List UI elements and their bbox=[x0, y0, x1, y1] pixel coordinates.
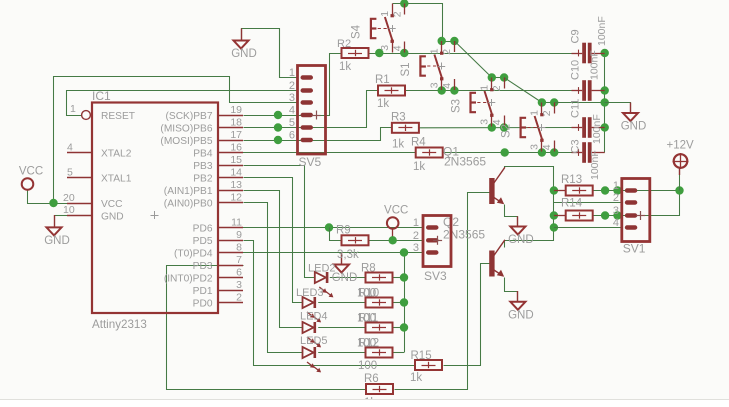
svg-text:S1: S1 bbox=[400, 62, 412, 76]
wire GND pin10 to ground symbol bbox=[54, 215, 67, 217]
svg-text:4: 4 bbox=[391, 45, 403, 51]
wire PD3 net: through IC down to R6 bbox=[167, 266, 367, 390]
wire R14 right through SV1 pin3 to +12V column bbox=[594, 191, 680, 216]
svg-text:RESET: RESET bbox=[101, 111, 135, 122]
svg-text:PB4: PB4 bbox=[193, 149, 213, 160]
switch S2 bbox=[500, 103, 554, 152]
svg-text:2: 2 bbox=[541, 110, 553, 116]
svg-text:3: 3 bbox=[413, 242, 419, 254]
wire LED3 cathode to R10 bbox=[318, 302, 365, 304]
svg-text:1k: 1k bbox=[392, 139, 404, 151]
svg-text:R13: R13 bbox=[561, 174, 582, 186]
wire SV1 pin4 to bus bbox=[554, 227, 622, 229]
svg-text:R3: R3 bbox=[391, 112, 406, 124]
wire S1 top pins link bbox=[442, 41, 455, 43]
svg-text:R2: R2 bbox=[337, 38, 351, 50]
+12V supply symbol bbox=[667, 140, 695, 176]
junction cap-GNDtap bbox=[601, 98, 609, 106]
svg-text:4: 4 bbox=[441, 83, 453, 89]
capacitor C10 100nF bbox=[569, 50, 604, 101]
svg-text:(AIN1)PB1: (AIN1)PB1 bbox=[164, 186, 213, 197]
junction S4 pin4 bottom bbox=[400, 49, 408, 57]
ground GND at capacitor bus bbox=[621, 103, 647, 133]
junction S3 pin3 bottom bbox=[488, 123, 496, 131]
LED5 bbox=[300, 335, 328, 372]
svg-text:PD5: PD5 bbox=[193, 236, 213, 247]
resistor R4 1k bbox=[416, 148, 443, 158]
LED4 bbox=[300, 311, 328, 348]
wire SV1 pin2 to bus bbox=[554, 202, 622, 204]
svg-text:1: 1 bbox=[529, 110, 541, 116]
wire VCC net left vertical/horizontal to IC pin20 and SV5 pin3 bbox=[28, 190, 68, 204]
svg-text:3: 3 bbox=[613, 205, 619, 217]
resistor R8 100 bbox=[366, 273, 393, 283]
svg-text:3: 3 bbox=[236, 279, 242, 291]
svg-text:LED4: LED4 bbox=[300, 311, 328, 323]
svg-text:1: 1 bbox=[413, 217, 419, 229]
junction VCC-SV3 bbox=[389, 236, 397, 244]
wire GND net S2 pin2 to cap bus bbox=[554, 102, 605, 104]
ground GND top left bbox=[231, 29, 257, 61]
svg-text:PD0: PD0 bbox=[193, 299, 213, 310]
svg-text:6: 6 bbox=[236, 267, 242, 279]
wire R9 branch down bbox=[330, 228, 342, 241]
svg-text:C9: C9 bbox=[569, 29, 581, 43]
junction cap-C9 bbox=[601, 49, 609, 57]
svg-text:20: 20 bbox=[63, 192, 75, 204]
switch S3 bbox=[450, 78, 504, 127]
svg-text:4: 4 bbox=[541, 144, 553, 150]
svg-text:C3: C3 bbox=[569, 139, 581, 153]
wire Q1 emitter to GND bbox=[505, 205, 518, 227]
wire LED2 cathode to R8 bbox=[330, 277, 366, 279]
svg-text:3: 3 bbox=[289, 92, 295, 104]
transistor Q2 2N3565 bbox=[489, 240, 505, 277]
svg-text:11: 11 bbox=[231, 217, 242, 229]
junction bus-R10 bbox=[400, 298, 408, 306]
junction bus-R11 bbox=[400, 323, 408, 331]
svg-text:4: 4 bbox=[613, 217, 619, 229]
junction cap-C11 bbox=[601, 123, 609, 131]
wire SCK net: pin19 through SV5 pin4 up to R2 bbox=[244, 54, 342, 116]
wire SCK net: R2 right to S4/S1 and C9 bbox=[369, 53, 572, 55]
wire PD5 net: pin9 down to R15 bbox=[244, 241, 416, 366]
svg-text:1: 1 bbox=[429, 48, 441, 54]
svg-text:1k: 1k bbox=[339, 61, 351, 73]
svg-text:2: 2 bbox=[441, 49, 453, 55]
svg-text:GND: GND bbox=[332, 272, 358, 284]
wire VCC symbol stub bbox=[392, 229, 394, 241]
junction S3 pin2 top bbox=[500, 73, 508, 81]
junction R14-b bbox=[613, 211, 621, 219]
wire R13 right through SV1 pin1 to +12V bbox=[593, 190, 679, 192]
junction S2 pin3 bottom bbox=[538, 148, 546, 156]
junction S1 pin3 bottom bbox=[438, 86, 446, 94]
svg-text:4: 4 bbox=[67, 142, 73, 154]
junction S1 pin1 top bbox=[438, 37, 446, 45]
wire MOSI net: pin17 through SV5 pin6 to R3 bbox=[244, 128, 392, 141]
svg-text:R8: R8 bbox=[361, 263, 376, 275]
svg-text:(SCK)PB7: (SCK)PB7 bbox=[166, 111, 213, 122]
svg-text:16: 16 bbox=[230, 142, 242, 154]
wire R9 right to VCC junction and SV3 pin2 bbox=[368, 240, 423, 242]
wire top GND to SV5 pin1 bbox=[242, 29, 299, 78]
junction bus-R13 bbox=[550, 186, 558, 194]
svg-text:Attiny2313: Attiny2313 bbox=[92, 318, 147, 331]
svg-text:1: 1 bbox=[289, 67, 295, 79]
resistor R6 1k bbox=[366, 384, 393, 394]
svg-text:1k: 1k bbox=[377, 98, 389, 110]
svg-text:7: 7 bbox=[236, 254, 242, 266]
svg-text:GND: GND bbox=[508, 309, 534, 321]
svg-text:R15: R15 bbox=[411, 350, 432, 362]
ground GND at Q1 emitter bbox=[508, 216, 534, 246]
capacitor C11 100nF bbox=[569, 99, 604, 144]
svg-text:100: 100 bbox=[358, 360, 377, 372]
capacitor C9 100nF bbox=[569, 16, 608, 63]
svg-text:9: 9 bbox=[236, 229, 242, 241]
wire R15 right to Q2 base bbox=[444, 264, 490, 366]
wire +12V symbol stub bbox=[679, 169, 681, 191]
svg-text:100: 100 bbox=[357, 338, 376, 350]
junction S4 pin2 top bbox=[400, 0, 408, 8]
resistor R1 1k bbox=[378, 86, 405, 96]
junction GND bus top bbox=[400, 248, 408, 256]
wire PB4 net: R4 right to S2 pins, Q1 collector node and C3 bbox=[444, 152, 572, 154]
svg-text:8: 8 bbox=[236, 242, 242, 254]
LED3 bbox=[296, 287, 324, 322]
svg-text:S2: S2 bbox=[500, 124, 512, 138]
wire Q2 emitter to GND bbox=[505, 278, 518, 302]
svg-text:SV3: SV3 bbox=[424, 269, 447, 283]
wire R14 left lead bbox=[554, 215, 566, 217]
svg-text:100nF: 100nF bbox=[591, 114, 603, 144]
junction PD6-R9 branch bbox=[325, 223, 333, 231]
svg-text:PD3: PD3 bbox=[193, 261, 213, 272]
svg-text:LED3: LED3 bbox=[296, 287, 324, 299]
junction cap-C10 bbox=[601, 86, 609, 94]
svg-text:5: 5 bbox=[67, 167, 73, 179]
ground GND middle (below PD4 net) bbox=[332, 253, 358, 285]
svg-text:(T0)PD4: (T0)PD4 bbox=[174, 249, 213, 260]
svg-text:13: 13 bbox=[230, 179, 242, 191]
svg-text:6: 6 bbox=[289, 130, 295, 142]
junction MOSI at SV5 pin6 bbox=[274, 136, 282, 144]
svg-text:VCC: VCC bbox=[384, 205, 408, 217]
VCC supply symbol left bbox=[19, 166, 43, 190]
wire R13 left lead bbox=[554, 190, 566, 192]
wire S3 top pins link bbox=[492, 77, 504, 79]
svg-text:1k: 1k bbox=[413, 161, 425, 173]
svg-text:LED5: LED5 bbox=[300, 335, 328, 347]
wire PB4 net: pin16 to R4 bbox=[243, 152, 416, 154]
svg-text:5: 5 bbox=[289, 117, 295, 129]
svg-text:10: 10 bbox=[63, 204, 75, 216]
junction S3 pin1 top bbox=[488, 73, 496, 81]
svg-text:VCC: VCC bbox=[101, 199, 123, 210]
svg-text:1: 1 bbox=[379, 11, 391, 17]
junction R14-a bbox=[601, 211, 609, 219]
wire S4 top connection to S1 pin1 bbox=[393, 4, 443, 42]
connector SV3 bbox=[413, 216, 451, 284]
junction S1 pin4 bottom bbox=[450, 86, 458, 94]
wire net R3 right to S3 pins and C11 bbox=[420, 127, 572, 129]
resistor R15 1k bbox=[415, 360, 442, 370]
svg-text:100: 100 bbox=[357, 288, 376, 300]
junction S2 pin2 top bbox=[550, 98, 558, 106]
junction S1 pin2 top bbox=[450, 37, 458, 45]
svg-text:(INT0)PD2: (INT0)PD2 bbox=[164, 274, 213, 285]
svg-text:XTAL2: XTAL2 bbox=[101, 149, 132, 160]
wire Q1 collector to R13/R14 bus bbox=[505, 167, 554, 248]
svg-text:15: 15 bbox=[230, 154, 242, 166]
svg-text:R1: R1 bbox=[375, 74, 390, 86]
connector SV5 bbox=[289, 66, 326, 170]
junction S2 pin4 bottom bbox=[550, 148, 558, 156]
wire PD4/GND net: pin8 to SV3 pin3 bbox=[243, 252, 423, 254]
op-amp IC1 ATtiny2313 microcontroller bbox=[63, 89, 243, 331]
wire PB1 to LED4 anode bbox=[244, 191, 303, 328]
junction bus-R8 bbox=[400, 273, 408, 281]
svg-text:(MISO)PB6: (MISO)PB6 bbox=[160, 124, 212, 135]
wire RESET net to SV5 pin2 bbox=[67, 91, 299, 116]
resistor R11 100 bbox=[366, 323, 393, 333]
VCC supply symbol middle bbox=[384, 205, 408, 229]
svg-text:19: 19 bbox=[230, 104, 242, 116]
svg-text:PB2: PB2 bbox=[193, 174, 213, 185]
svg-text:2N3565: 2N3565 bbox=[444, 155, 486, 169]
svg-text:PB3: PB3 bbox=[193, 161, 213, 172]
wire diagonal S3 pin2 to S2 pin1 bbox=[504, 78, 542, 103]
junction MISO at SV5 pin5 bbox=[274, 123, 282, 131]
wire S2 top pins link bbox=[542, 102, 554, 104]
svg-text:1: 1 bbox=[613, 180, 619, 192]
svg-text:IC1: IC1 bbox=[92, 89, 111, 103]
svg-text:100nF: 100nF bbox=[589, 150, 601, 180]
svg-text:GND: GND bbox=[231, 48, 257, 60]
svg-text:R9: R9 bbox=[336, 225, 351, 237]
decor bbox=[0, 399, 729, 407]
junction R13-b bbox=[613, 186, 621, 194]
svg-text:100: 100 bbox=[357, 313, 376, 325]
wire cap bus vertical bbox=[604, 53, 606, 153]
svg-text:1k: 1k bbox=[410, 372, 422, 384]
wire R8 right to GND bus bbox=[392, 277, 404, 279]
junction S2 pin1 top bbox=[538, 98, 546, 106]
wire R11 right to GND bus bbox=[392, 327, 404, 329]
svg-text:18: 18 bbox=[230, 117, 242, 129]
svg-text:14: 14 bbox=[230, 167, 242, 179]
wire PD6 net: pin11 to SV3 pin1 bbox=[243, 227, 423, 229]
svg-text:GND: GND bbox=[621, 121, 647, 133]
junction +12V node bbox=[675, 186, 683, 194]
wire cap bus GND tap bbox=[605, 103, 631, 114]
svg-text:VCC: VCC bbox=[19, 166, 43, 178]
switch S4 bbox=[351, 4, 405, 53]
wire GND symbol stub mid bbox=[341, 253, 343, 265]
resistor R10 100 bbox=[366, 298, 393, 308]
svg-text:1: 1 bbox=[70, 103, 76, 115]
svg-text:1: 1 bbox=[479, 85, 491, 91]
svg-text:12: 12 bbox=[230, 192, 242, 204]
resistor R14 bbox=[566, 211, 593, 221]
svg-text:LED2: LED2 bbox=[308, 263, 336, 275]
junction bus-SV1pin4 bbox=[550, 223, 558, 231]
svg-text:2: 2 bbox=[491, 85, 503, 91]
junction S3 pin4 bottom bbox=[500, 123, 508, 131]
wire LED4 cathode to R11 bbox=[318, 327, 365, 329]
junction S4 bottom-left bbox=[375, 49, 383, 57]
svg-text:R6: R6 bbox=[364, 373, 379, 385]
svg-text:S3: S3 bbox=[450, 99, 462, 113]
svg-text:2N3565: 2N3565 bbox=[443, 228, 485, 242]
svg-text:SV1: SV1 bbox=[623, 242, 646, 256]
svg-text:3: 3 bbox=[429, 82, 441, 88]
svg-text:3: 3 bbox=[479, 119, 491, 125]
svg-text:2: 2 bbox=[413, 230, 419, 242]
connector SV1 bbox=[613, 179, 650, 256]
wire LED5 cathode to R12 bbox=[318, 352, 365, 354]
svg-text:+12V: +12V bbox=[667, 140, 695, 152]
wire MISO net: R1 right to S1/S3 and C10 bbox=[406, 90, 572, 92]
svg-text:2: 2 bbox=[289, 80, 295, 92]
svg-text:S4: S4 bbox=[351, 24, 363, 39]
transistor Q1 2N3565 bbox=[489, 167, 505, 204]
ground GND at Q2 emitter bbox=[508, 291, 534, 321]
svg-text:2: 2 bbox=[391, 11, 403, 17]
resistor R3 1k bbox=[392, 123, 419, 133]
svg-text:3: 3 bbox=[529, 144, 541, 150]
svg-text:4: 4 bbox=[289, 105, 295, 117]
svg-text:C11: C11 bbox=[569, 99, 581, 118]
resistor R12 100 bbox=[366, 348, 393, 358]
svg-text:PD6: PD6 bbox=[193, 224, 213, 235]
switch S1 bbox=[400, 41, 454, 90]
svg-text:2: 2 bbox=[613, 192, 619, 204]
svg-text:(AIN0)PB0: (AIN0)PB0 bbox=[164, 199, 213, 210]
wire R6 right to Q1 base bbox=[395, 193, 490, 390]
svg-text:(MOSI)PB5: (MOSI)PB5 bbox=[160, 136, 212, 147]
resistor R2 1k bbox=[337, 38, 369, 58]
svg-text:SV5: SV5 bbox=[299, 155, 322, 169]
resistor R13 bbox=[566, 186, 593, 196]
svg-text:GND: GND bbox=[508, 234, 534, 246]
svg-text:XTAL1: XTAL1 bbox=[101, 174, 132, 185]
svg-text:C10: C10 bbox=[569, 60, 581, 80]
junction R13-a bbox=[601, 186, 609, 194]
wire diagonal S1 pin2 to S3 pin1 bbox=[454, 41, 491, 78]
LED2 bbox=[308, 263, 336, 298]
wire PB3 to LED2 anode bbox=[244, 166, 315, 278]
svg-text:PD1: PD1 bbox=[193, 286, 213, 297]
wire PB2 to LED3 anode bbox=[244, 178, 303, 303]
capacitor C3 100nF bbox=[569, 139, 604, 180]
svg-text:17: 17 bbox=[230, 129, 242, 141]
svg-text:3,3k: 3,3k bbox=[337, 249, 359, 261]
junction Q1 collector column bbox=[501, 148, 509, 156]
wire R12 right to GND bus bbox=[392, 352, 404, 354]
svg-text:3: 3 bbox=[379, 45, 391, 51]
junction bus-R14 bbox=[550, 211, 558, 219]
wire LED GND bus vertical bbox=[404, 253, 406, 353]
svg-text:GND: GND bbox=[44, 235, 70, 247]
svg-text:R14: R14 bbox=[561, 198, 583, 210]
ground GND below pin10 bbox=[44, 215, 70, 247]
wire MISO net: pin18 through SV5 pin5 to R1 bbox=[244, 91, 379, 128]
wire PB0 to LED5 anode bbox=[244, 203, 303, 353]
svg-text:100nF: 100nF bbox=[596, 16, 608, 46]
svg-text:R4: R4 bbox=[411, 137, 426, 149]
wire R10 right to GND bus bbox=[392, 302, 404, 304]
junction node VCC-left bbox=[49, 199, 57, 207]
svg-text:GND: GND bbox=[101, 212, 124, 223]
resistor R9 3.3k bbox=[342, 235, 369, 245]
svg-text:2: 2 bbox=[236, 292, 242, 304]
svg-text:100nF: 100nF bbox=[589, 50, 601, 80]
junction SCK at SV5 pin4 bbox=[274, 111, 282, 119]
